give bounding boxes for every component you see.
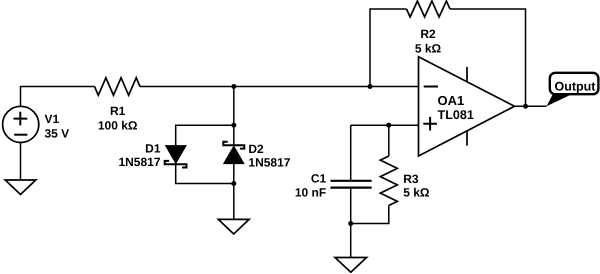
- voltage source V1: [3, 106, 39, 142]
- label R3 5 kΩ: [403, 172, 430, 199]
- wire node A down to D2: [233, 87, 235, 146]
- resistor R3: [380, 156, 397, 206]
- op-amp OA1: [419, 57, 515, 156]
- wire node F to ground: [350, 224, 352, 258]
- node E junction: [386, 123, 391, 128]
- wire D1 bottom to node D: [176, 164, 234, 183]
- wire op-amp output: [515, 105, 547, 107]
- wire node B up and over to R2: [370, 9, 407, 87]
- capacitor C1: [331, 181, 372, 188]
- svg-text:R3: R3: [403, 172, 419, 186]
- node C junction on D2 wire: [231, 123, 236, 128]
- wire node A to node B: [234, 86, 370, 88]
- svg-text:V1: V1: [45, 112, 60, 126]
- svg-text:1N5817: 1N5817: [118, 155, 160, 169]
- svg-text:R1: R1: [110, 104, 126, 118]
- resistor R1: [95, 78, 141, 96]
- label D1 1N5817: [118, 142, 160, 169]
- label R2 5 kΩ: [415, 27, 442, 56]
- label OA1 TL081: [438, 93, 474, 122]
- ground: [218, 219, 249, 234]
- wire node C to D1 top: [176, 125, 234, 145]
- wire C1 bottom to node F: [350, 189, 352, 224]
- svg-text:OA1: OA1: [438, 93, 465, 108]
- svg-text:10 nF: 10 nF: [295, 185, 326, 199]
- diode D2: [223, 142, 244, 164]
- svg-text:R2: R2: [420, 27, 436, 41]
- svg-text:D1: D1: [145, 142, 161, 156]
- wire V1 bottom to ground: [20, 143, 22, 180]
- ground: [335, 258, 367, 273]
- svg-text:100 kΩ: 100 kΩ: [98, 119, 138, 133]
- wire D2 bottom through node D to ground: [233, 164, 235, 220]
- output flag Output: [550, 73, 599, 94]
- svg-text:C1: C1: [311, 171, 327, 185]
- wire node E to R3: [388, 125, 390, 156]
- label C1 10 nF: [295, 171, 327, 199]
- svg-text:D2: D2: [248, 142, 264, 156]
- wire R1 to node A: [140, 86, 234, 88]
- resistor R2: [407, 1, 451, 17]
- diode D1: [165, 146, 187, 168]
- wire V1 top to R1: [21, 87, 95, 107]
- wire R2 to output node: [450, 9, 526, 106]
- output flag pointer: [547, 94, 572, 106]
- label R1 100 kΩ: [98, 104, 138, 133]
- node D junction: [231, 181, 236, 186]
- node B junction: [368, 84, 373, 89]
- ground: [5, 180, 36, 195]
- label D2 1N5817: [248, 142, 290, 170]
- svg-text:5 kΩ: 5 kΩ: [403, 185, 430, 199]
- node F junction: [348, 221, 353, 226]
- output node junction: [523, 104, 528, 109]
- wire R3 bottom to node F: [351, 206, 389, 224]
- wire node B to op-amp inverting input: [370, 86, 419, 88]
- svg-text:35 V: 35 V: [45, 127, 70, 141]
- svg-text:1N5817: 1N5817: [248, 156, 290, 170]
- label V1 35 V: [45, 112, 70, 141]
- svg-text:5 kΩ: 5 kΩ: [415, 42, 442, 56]
- node A junction: [231, 84, 236, 89]
- wire plus input rail: [351, 124, 419, 126]
- wire node E down to C1: [350, 125, 352, 180]
- svg-text:TL081: TL081: [438, 108, 474, 122]
- svg-text:Output: Output: [555, 79, 597, 93]
